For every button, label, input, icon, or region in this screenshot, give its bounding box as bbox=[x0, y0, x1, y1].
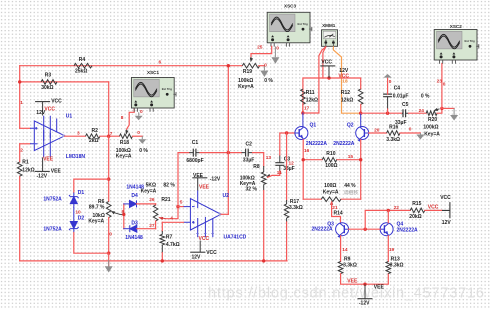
resistor R15 bbox=[410, 208, 425, 213]
power VCC at U2 bbox=[199, 241, 201, 253]
svg-text:Key=A: Key=A bbox=[323, 190, 339, 196]
resistor R10 bbox=[322, 157, 337, 162]
junction node 6 top bbox=[227, 64, 230, 67]
junction diode branch top bbox=[107, 177, 110, 180]
wire C4 top to ground bbox=[387, 78, 389, 95]
svg-text:Key=A: Key=A bbox=[88, 218, 104, 224]
wire R6 wiper to node 9 bbox=[120, 213, 124, 215]
wire R11 bottom node 17 bbox=[302, 105, 304, 114]
svg-text:4.7kΩ: 4.7kΩ bbox=[166, 242, 180, 248]
svg-text:UA741CD: UA741CD bbox=[224, 234, 247, 240]
wire diode branch top bbox=[74, 179, 109, 192]
wire node 22 bbox=[365, 210, 410, 229]
junction node 18 bbox=[359, 112, 362, 115]
resistor R3 bbox=[41, 80, 57, 85]
junction R8 rail bbox=[262, 259, 265, 262]
svg-text:LM318N: LM318N bbox=[66, 154, 86, 160]
svg-text:-12V: -12V bbox=[37, 173, 48, 179]
svg-text:VCC: VCC bbox=[321, 59, 332, 65]
svg-text:22: 22 bbox=[394, 205, 400, 211]
svg-text:0: 0 bbox=[443, 82, 446, 88]
svg-text:1N752A: 1N752A bbox=[43, 227, 62, 233]
svg-text:VEE: VEE bbox=[199, 184, 210, 190]
junction node 7 bbox=[107, 135, 110, 138]
wire R14 right bbox=[341, 198, 361, 200]
svg-text:12kΩ: 12kΩ bbox=[306, 97, 318, 103]
svg-text:3.3kΩ: 3.3kΩ bbox=[386, 137, 400, 143]
junction R10 left bbox=[302, 158, 305, 161]
svg-text:XSC2: XSC2 bbox=[450, 24, 462, 29]
svg-text:100kΩ: 100kΩ bbox=[423, 124, 438, 130]
junction bases bbox=[364, 228, 367, 231]
svg-text:0: 0 bbox=[276, 45, 279, 51]
wire R17 bottom to rail end bbox=[286, 222, 288, 261]
power VCC at U1 bbox=[35, 101, 50, 103]
zener diode D1 1N752A bbox=[69, 193, 79, 208]
svg-text:0: 0 bbox=[409, 127, 412, 133]
wire node 27 bbox=[137, 228, 156, 230]
wire Q2 collector lead bbox=[360, 113, 362, 126]
wire R14 left bbox=[303, 198, 321, 200]
svg-text:VEE: VEE bbox=[193, 173, 204, 179]
wire node 7 vertical to R6 bbox=[108, 136, 110, 201]
wire R8 bottom to rail bbox=[263, 191, 265, 261]
svg-text:13: 13 bbox=[266, 155, 272, 161]
svg-text:12kΩ: 12kΩ bbox=[22, 167, 34, 173]
wire U2 output bbox=[221, 213, 228, 215]
wire XMM1 left probe to node 17 bbox=[303, 47, 326, 113]
junction node 9 bbox=[122, 213, 125, 216]
svg-text:C4: C4 bbox=[394, 86, 401, 92]
potentiometer R19 bbox=[250, 57, 252, 60]
svg-text:R21: R21 bbox=[161, 197, 170, 203]
ground at R19 bbox=[263, 66, 265, 71]
wire R10 left bbox=[303, 159, 322, 161]
wire diode branch bottom bbox=[74, 233, 109, 254]
svg-text:R18: R18 bbox=[120, 140, 129, 146]
wire R16 to ground bbox=[400, 132, 420, 134]
svg-text:C2: C2 bbox=[246, 141, 253, 147]
potentiometer R20 bbox=[426, 111, 437, 116]
power VCC at R15 bbox=[442, 202, 450, 218]
resistor R9 bbox=[338, 262, 343, 274]
svg-text:R3: R3 bbox=[45, 73, 52, 79]
junction node 23 bbox=[440, 107, 443, 110]
junction C4 bbox=[386, 112, 389, 115]
svg-text:2N2222A: 2N2222A bbox=[397, 228, 419, 234]
wire R12 bottom bbox=[360, 105, 362, 114]
svg-text:XSC3: XSC3 bbox=[284, 4, 296, 9]
svg-text:21: 21 bbox=[332, 205, 338, 211]
wire node 6 vertical upper bbox=[227, 66, 229, 153]
svg-text:32 %: 32 % bbox=[246, 187, 258, 193]
svg-text:D1: D1 bbox=[78, 190, 85, 196]
wire Q4 emitter node 19 bbox=[387, 236, 389, 262]
svg-text:R10: R10 bbox=[326, 151, 335, 157]
svg-text:20kΩ: 20kΩ bbox=[409, 214, 421, 220]
svg-text:Key=A: Key=A bbox=[424, 132, 440, 138]
svg-text:2N2222A: 2N2222A bbox=[306, 141, 328, 147]
svg-text:VCC: VCC bbox=[338, 74, 349, 80]
svg-text:4: 4 bbox=[170, 216, 173, 222]
svg-text:7: 7 bbox=[110, 131, 113, 137]
svg-text:0: 0 bbox=[137, 130, 140, 136]
svg-text:VEE: VEE bbox=[51, 168, 62, 174]
svg-text:30kΩ: 30kΩ bbox=[41, 85, 53, 91]
svg-text:0 %: 0 % bbox=[421, 93, 430, 99]
svg-text:D2: D2 bbox=[78, 216, 85, 222]
junction node 6 mid bbox=[227, 151, 230, 154]
ground at XSC1 bbox=[138, 112, 140, 115]
svg-text:VCC: VCC bbox=[44, 107, 55, 113]
zener diode D2 1N752A bbox=[69, 221, 79, 233]
svg-text:82 %: 82 % bbox=[163, 182, 175, 188]
wire Q2 emitter node 15 bbox=[360, 140, 362, 200]
wire to U2 +input bbox=[178, 206, 184, 208]
svg-text:5: 5 bbox=[180, 200, 183, 206]
svg-text:D3: D3 bbox=[131, 220, 138, 226]
power VEE at U2 bbox=[192, 177, 207, 179]
capacitor C5 33uF bbox=[403, 109, 406, 117]
wire XSC2 A node 23 bbox=[441, 64, 443, 109]
svg-text:3.3kΩ: 3.3kΩ bbox=[390, 262, 404, 268]
wire node 0 below R6 bbox=[108, 218, 110, 254]
wire node 2 R1 top lead bbox=[19, 144, 21, 162]
svg-text:26: 26 bbox=[149, 197, 155, 203]
transistor Q2 2N2222A bbox=[356, 127, 369, 142]
svg-text:VEE: VEE bbox=[374, 285, 385, 291]
svg-text:33µF: 33µF bbox=[395, 120, 407, 126]
resistor R17 bbox=[284, 204, 289, 218]
oscilloscope XSC3 bbox=[267, 4, 312, 47]
wire XMM1 left to VCC rail bbox=[323, 47, 326, 78]
resistor R11 bbox=[301, 89, 306, 104]
wire C3 top lead red bbox=[279, 150, 281, 155]
wire node 10 between D1 D2 bbox=[73, 208, 75, 221]
svg-text:9: 9 bbox=[122, 209, 125, 215]
svg-text:R11: R11 bbox=[306, 90, 315, 96]
svg-text:U2: U2 bbox=[223, 193, 230, 199]
potentiometer R6 bbox=[106, 202, 111, 218]
wire node 5 up to C1 bbox=[178, 153, 189, 207]
svg-text:Key=A: Key=A bbox=[238, 84, 254, 90]
transistor Q4 2N2222A bbox=[380, 223, 393, 236]
wire XMM1 right orange node 18 bbox=[333, 47, 360, 113]
wire R17 top bbox=[286, 133, 288, 200]
wire node 9 vertical bbox=[123, 204, 125, 229]
wire VEE row bbox=[341, 274, 389, 285]
svg-text:25kΩ: 25kΩ bbox=[75, 69, 87, 75]
wire node 1 to R3 row bbox=[20, 81, 109, 83]
svg-text:R1: R1 bbox=[22, 160, 29, 166]
svg-text:10: 10 bbox=[75, 210, 81, 216]
transistor Q3 2N2222A bbox=[336, 223, 349, 238]
svg-text:Ext Trig: Ext Trig bbox=[162, 87, 173, 91]
svg-text:33µF: 33µF bbox=[243, 158, 255, 164]
svg-text:5KΩ: 5KΩ bbox=[146, 182, 156, 188]
svg-text:0: 0 bbox=[389, 79, 392, 85]
wire node 6 vertical lower bbox=[227, 153, 229, 215]
op-amp U1 LM318N bbox=[30, 116, 65, 158]
wire Q2 base node 20 bbox=[369, 132, 387, 134]
capacitor C4 0.01uF bbox=[383, 94, 392, 97]
resistor R2 bbox=[86, 134, 101, 139]
multimeter XMM1 bbox=[322, 23, 338, 47]
svg-text:Key=A: Key=A bbox=[141, 189, 157, 195]
svg-text:C1: C1 bbox=[192, 140, 199, 146]
oscilloscope XSC1 bbox=[131, 70, 176, 112]
potentiometer R18 bbox=[120, 134, 133, 139]
wire R18 to ground bbox=[133, 135, 143, 137]
svg-text:0.01µF: 0.01µF bbox=[393, 94, 409, 100]
svg-text:R2: R2 bbox=[92, 128, 99, 134]
svg-text:Q4: Q4 bbox=[397, 221, 404, 227]
junction node 12 R17 bbox=[285, 131, 288, 134]
junction node 5 bbox=[176, 205, 179, 208]
wire Q4 collector bbox=[387, 210, 389, 222]
svg-text:Q2: Q2 bbox=[347, 123, 354, 129]
wire to D3 bbox=[124, 228, 130, 230]
wire R19 to ground bbox=[259, 65, 265, 67]
power VEE at U1 bbox=[35, 170, 50, 172]
wire to XSC2 ground bbox=[442, 107, 454, 109]
power VEE bottom bbox=[364, 284, 366, 299]
svg-text:VCC: VCC bbox=[206, 250, 217, 256]
transistor Q1 2N2222A bbox=[295, 127, 308, 140]
svg-text:Q1: Q1 bbox=[310, 123, 317, 129]
op-amp U2 UA741CD bbox=[184, 191, 222, 238]
wire C4 bottom bbox=[387, 109, 389, 113]
wire node 6 top rail bbox=[20, 65, 242, 67]
svg-text:44 %: 44 % bbox=[344, 183, 356, 189]
svg-text:0: 0 bbox=[264, 62, 267, 68]
svg-text:0: 0 bbox=[109, 232, 112, 238]
oscilloscope XSC2 bbox=[434, 24, 479, 64]
wire node 11 bbox=[268, 171, 280, 178]
resistor R16 bbox=[387, 131, 400, 136]
svg-text:1N752A: 1N752A bbox=[43, 196, 62, 202]
svg-text:Ext Trig: Ext Trig bbox=[298, 22, 309, 26]
svg-text:19: 19 bbox=[389, 247, 395, 253]
wire node 18 to C5 bbox=[361, 112, 402, 114]
ground at XSC3 bbox=[274, 46, 276, 57]
capacitor C1 6800pF bbox=[193, 149, 196, 157]
svg-text:2N2222A: 2N2222A bbox=[312, 227, 334, 233]
junction diode branch bottom bbox=[107, 252, 110, 255]
svg-text:R15: R15 bbox=[412, 201, 421, 207]
svg-text:2kΩ: 2kΩ bbox=[89, 138, 99, 144]
resistor R4 bbox=[74, 63, 92, 68]
svg-text:23: 23 bbox=[437, 79, 443, 85]
wire node 1 left vertical bbox=[19, 66, 21, 129]
svg-text:R12: R12 bbox=[341, 90, 350, 96]
svg-text:3: 3 bbox=[77, 130, 80, 136]
svg-text:8: 8 bbox=[121, 115, 124, 121]
junction Q4 collector bbox=[387, 209, 390, 212]
wire R20 right bbox=[437, 108, 442, 113]
wire R14 wiper to Q3 bbox=[332, 202, 341, 222]
junction node 17 bbox=[301, 111, 304, 114]
svg-text:D4: D4 bbox=[131, 193, 138, 199]
svg-text:27: 27 bbox=[149, 223, 155, 229]
svg-text:17: 17 bbox=[304, 105, 310, 111]
ground at XSC2 branch bbox=[453, 108, 455, 115]
svg-text:6800pF: 6800pF bbox=[186, 158, 203, 164]
wire node 7 row bbox=[100, 135, 120, 137]
wire node 13 bbox=[253, 153, 264, 166]
svg-text:24: 24 bbox=[419, 108, 425, 114]
svg-text:调相移: 调相移 bbox=[344, 189, 359, 196]
svg-text:VCC: VCC bbox=[428, 205, 439, 211]
svg-text:2N2222A: 2N2222A bbox=[333, 141, 355, 147]
junction VCC stem bbox=[327, 76, 330, 79]
wire node 7 vertical upper bbox=[108, 82, 110, 136]
capacitor C2 33uF bbox=[246, 149, 249, 157]
wire to ground below diode branch bbox=[108, 253, 110, 266]
svg-text:R14: R14 bbox=[334, 211, 343, 217]
svg-text:12V: 12V bbox=[442, 220, 452, 226]
ground at R18 bbox=[141, 136, 143, 139]
wire R7 bottom bbox=[161, 253, 163, 261]
wire C1 to C2 node 6 bbox=[200, 152, 242, 154]
svg-text:R19: R19 bbox=[243, 69, 252, 75]
wire Q3 emitter node 14 bbox=[340, 236, 342, 262]
svg-text:12kΩ: 12kΩ bbox=[341, 97, 353, 103]
svg-text:100Ω: 100Ω bbox=[324, 183, 336, 189]
svg-text:R8: R8 bbox=[253, 164, 260, 170]
svg-text:33µF: 33µF bbox=[283, 166, 295, 172]
svg-text:VCC: VCC bbox=[51, 99, 62, 105]
wire VCC rail bbox=[303, 78, 361, 113]
svg-text:VEE: VEE bbox=[347, 279, 358, 285]
svg-text:12: 12 bbox=[289, 160, 295, 166]
junction node 1 bbox=[18, 80, 21, 83]
svg-text:R7: R7 bbox=[166, 234, 173, 240]
capacitor C3 33uF bbox=[275, 163, 284, 166]
wire U1 -input bbox=[20, 143, 30, 145]
wire R7 top lead bbox=[161, 222, 163, 231]
svg-text:U1: U1 bbox=[66, 113, 73, 119]
resistor R7 bbox=[161, 231, 163, 253]
wire Q1 collector lead bbox=[302, 113, 304, 127]
svg-text:2: 2 bbox=[20, 147, 23, 153]
svg-text:R20: R20 bbox=[428, 117, 437, 123]
resistor R1 bbox=[17, 162, 22, 176]
svg-text:14: 14 bbox=[342, 247, 348, 253]
wire XSC1 A to R18 wiper node 8 bbox=[127, 109, 135, 130]
ground above C4 bbox=[387, 77, 389, 79]
wire U1 +input bbox=[20, 127, 30, 129]
svg-text:Ext Trig: Ext Trig bbox=[465, 39, 476, 43]
svg-text:-12V: -12V bbox=[210, 177, 221, 183]
ground at R16 bbox=[419, 133, 421, 135]
svg-text:VCC: VCC bbox=[440, 195, 451, 201]
svg-text:11: 11 bbox=[277, 170, 282, 176]
wire XSC3 A node 25 bbox=[251, 46, 272, 57]
junction R10 right bbox=[359, 158, 362, 161]
wire Q1 emitter node 16 bbox=[302, 140, 304, 200]
wire R1 bottom to rail bbox=[19, 176, 21, 261]
svg-text:0: 0 bbox=[140, 109, 143, 115]
ground below diode branch bbox=[108, 260, 110, 266]
wire R10 right bbox=[337, 159, 361, 161]
wire bottom rail bbox=[20, 260, 287, 262]
svg-text:XSC1: XSC1 bbox=[147, 70, 159, 75]
wire U1 output node 3 bbox=[65, 135, 86, 137]
wire R15 to VCC bbox=[425, 209, 442, 211]
wire R7 to U2 -input bbox=[162, 221, 183, 223]
svg-text:100Ω: 100Ω bbox=[325, 163, 337, 169]
svg-text:C5: C5 bbox=[402, 102, 409, 108]
svg-text:89.7 %: 89.7 % bbox=[89, 205, 105, 211]
potentiometer R8 bbox=[263, 166, 265, 172]
diode D4 1N4148 bbox=[130, 200, 137, 207]
svg-text:-12V: -12V bbox=[359, 301, 370, 307]
svg-text:0 %: 0 % bbox=[264, 78, 273, 84]
svg-text:Key=A: Key=A bbox=[116, 154, 132, 160]
wire R21 top lead bbox=[155, 204, 157, 205]
wire Q3 Q4 bases bbox=[349, 228, 381, 230]
wire to D4 bbox=[124, 203, 130, 205]
svg-text:16: 16 bbox=[304, 148, 310, 154]
svg-text:6: 6 bbox=[159, 59, 162, 65]
svg-text:12V: 12V bbox=[192, 255, 202, 261]
svg-text:XMM1: XMM1 bbox=[322, 23, 336, 28]
svg-text:1N4148: 1N4148 bbox=[125, 235, 143, 241]
svg-text:3.3kΩ: 3.3kΩ bbox=[343, 262, 357, 268]
svg-text:1: 1 bbox=[20, 100, 23, 106]
svg-text:VEE: VEE bbox=[43, 157, 54, 163]
wire node 24 bbox=[409, 112, 427, 114]
svg-text:0 %: 0 % bbox=[139, 148, 148, 154]
power VCC mid bbox=[320, 65, 335, 67]
wire R21 bottom lead bbox=[155, 221, 157, 229]
svg-text:R4: R4 bbox=[79, 57, 86, 63]
resistor R12 bbox=[358, 89, 363, 104]
junction VEE bbox=[363, 283, 366, 286]
svg-text:20: 20 bbox=[374, 128, 380, 134]
svg-text:25: 25 bbox=[257, 45, 263, 51]
junction R7 rail bbox=[161, 259, 164, 262]
wire node 12 to Q1 base bbox=[280, 133, 295, 150]
resistor R13 bbox=[386, 262, 391, 274]
wire node 4 wiper to U2 bbox=[166, 207, 178, 219]
R21 wiper arrow bbox=[158, 216, 163, 220]
svg-text:https://blog.csdn.net/weixin_4: https://blog.csdn.net/weixin_45773716 bbox=[208, 286, 484, 302]
svg-text:3.3kΩ: 3.3kΩ bbox=[289, 205, 303, 211]
wire node 26 bbox=[137, 203, 156, 205]
